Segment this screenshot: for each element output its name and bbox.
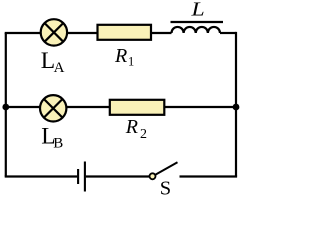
svg-text:S: S — [160, 178, 171, 200]
wire: resistor R1 to inductor — [151, 32, 172, 34]
wire: battery to switch pivot — [86, 175, 150, 177]
wire: switch to bottom-right corner — [180, 175, 238, 177]
svg-text:L: L — [190, 0, 204, 21]
switch S pivot — [150, 173, 156, 179]
svg-text:B: B — [53, 136, 63, 152]
wire: middle row, left junction to lamp LB — [6, 106, 40, 108]
svg-text:R: R — [125, 116, 138, 138]
wire: lamp LB to resistor R2 — [67, 106, 110, 108]
wire: inductor to top-right corner — [220, 32, 236, 34]
wire: lamp LA to resistor R1 — [67, 32, 97, 34]
inductor L coil — [172, 27, 220, 33]
resistor R1 — [98, 25, 152, 40]
svg-text:1: 1 — [128, 55, 134, 69]
svg-text:A: A — [54, 60, 65, 76]
wire: bottom-left corner to battery — [5, 175, 78, 177]
wire: top-left corner to lamp LA — [5, 32, 41, 34]
svg-text:R: R — [114, 45, 127, 67]
switch S lever — [155, 162, 177, 174]
lamp LA — [41, 19, 67, 45]
wire: resistor R2 to right junction — [165, 106, 237, 108]
resistor R2 — [110, 100, 165, 115]
svg-text:2: 2 — [140, 127, 147, 142]
inductor bar — [171, 21, 224, 23]
node: right junction — [233, 104, 240, 111]
battery positive plate (long) — [84, 162, 86, 192]
wire: left vertical — [5, 33, 7, 177]
wire: right vertical — [235, 32, 237, 177]
node: left junction — [2, 104, 9, 111]
battery negative plate (short) — [77, 169, 79, 184]
lamp LB — [40, 95, 66, 121]
